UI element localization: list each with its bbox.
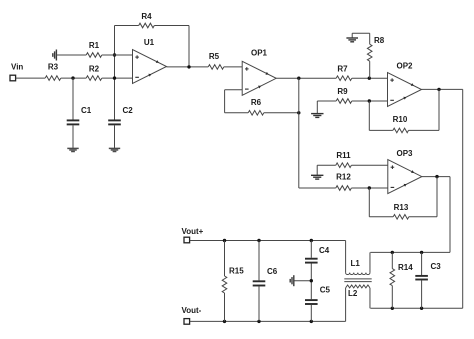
svg-text:C5: C5 [320, 285, 331, 294]
svg-text:C6: C6 [267, 267, 278, 276]
svg-text:OP1: OP1 [251, 49, 268, 58]
svg-text:R6: R6 [251, 98, 262, 107]
svg-text:R14: R14 [398, 263, 413, 272]
svg-text:R10: R10 [393, 115, 408, 124]
svg-text:OP3: OP3 [396, 149, 413, 158]
svg-text:R3: R3 [48, 63, 59, 72]
svg-text:R11: R11 [336, 151, 351, 160]
svg-text:R2: R2 [89, 65, 100, 74]
svg-text:R7: R7 [337, 64, 348, 73]
svg-text:C4: C4 [319, 246, 330, 255]
svg-text:R15: R15 [229, 267, 244, 276]
svg-text:R1: R1 [89, 41, 100, 50]
svg-text:R5: R5 [209, 52, 220, 61]
svg-text:L2: L2 [348, 289, 358, 298]
svg-text:Vout+: Vout+ [182, 227, 204, 236]
svg-text:R12: R12 [336, 172, 351, 181]
svg-text:C2: C2 [123, 106, 134, 115]
svg-text:U1: U1 [144, 38, 155, 47]
svg-text:R9: R9 [337, 87, 348, 96]
svg-text:Vout-: Vout- [182, 306, 202, 315]
svg-text:R4: R4 [141, 12, 152, 21]
svg-text:Vin: Vin [11, 63, 23, 72]
svg-text:R8: R8 [374, 36, 385, 45]
svg-text:L1: L1 [351, 259, 361, 268]
svg-text:R13: R13 [394, 203, 409, 212]
svg-text:OP2: OP2 [396, 62, 413, 71]
svg-text:C3: C3 [431, 262, 442, 271]
svg-text:C1: C1 [81, 106, 92, 115]
